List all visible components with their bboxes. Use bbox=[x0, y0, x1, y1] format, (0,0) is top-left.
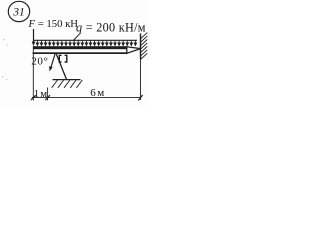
svg-text:20°: 20° bbox=[31, 56, 48, 68]
support rod at 20 deg bbox=[56, 53, 67, 80]
reaction force arrow at 20 deg bbox=[49, 53, 55, 72]
wall line at right support bbox=[140, 34, 142, 60]
svg-text:6м: 6м bbox=[90, 87, 104, 99]
scan noise dots bbox=[2, 39, 8, 80]
distributed load line bbox=[34, 39, 137, 41]
svg-text:q = 200 кН/м: q = 200 кН/м bbox=[76, 21, 146, 35]
wall extension line down to dimension line bbox=[140, 59, 142, 100]
svg-text:F = 150 кН: F = 150 кН bbox=[28, 18, 79, 30]
leader line from q label bbox=[73, 34, 80, 41]
distributed load arrows bbox=[36, 41, 136, 46]
dimension extension line left bbox=[32, 46, 34, 101]
beam tapered end into wall bbox=[127, 47, 141, 54]
dimension line bbox=[32, 97, 141, 99]
force F arrow bbox=[32, 29, 36, 46]
support slider brackets bbox=[59, 55, 67, 62]
svg-text:1м: 1м bbox=[34, 88, 47, 100]
svg-text:31: 31 bbox=[12, 7, 25, 19]
beam top flange line bbox=[33, 46, 128, 49]
dimension slash tick right bbox=[138, 95, 142, 101]
dimension extension line middle bbox=[47, 88, 49, 101]
problem number circle 31 bbox=[8, 1, 29, 21]
dimension slash tick middle bbox=[45, 95, 50, 100]
ground hatching bbox=[52, 80, 83, 88]
wall hatching bbox=[141, 33, 148, 60]
beam bottom flange line bbox=[33, 52, 128, 54]
ground line under support bbox=[53, 79, 81, 81]
dimension slash tick left bbox=[31, 95, 36, 100]
